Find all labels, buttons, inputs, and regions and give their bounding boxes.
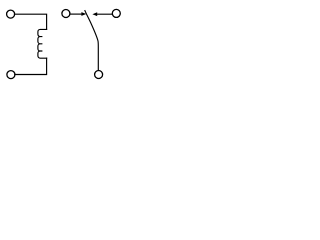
switch NO terminal circle (right) — [112, 9, 120, 17]
switch lever (movable arm, curved) — [85, 11, 98, 70]
wire bottom (coil to pin 2) — [15, 58, 47, 74]
NO contact arrowhead (points left) — [92, 12, 97, 16]
NC contact arrowhead (points right) — [81, 12, 86, 16]
wire top (coil pin 1 to coil) — [15, 14, 47, 29]
common terminal circle (bottom) — [95, 71, 103, 79]
inductor coil L (4 loops) — [38, 29, 47, 58]
coil terminal circle (top left pin) — [7, 10, 15, 18]
coil terminal circle (bottom left pin) — [7, 71, 15, 79]
wire from NO terminal — [97, 13, 113, 15]
relay schematic: coil K1 (left) and SPDT contact (right) — [0, 0, 131, 93]
switch NC terminal circle (left) — [62, 10, 70, 18]
wire from NC terminal — [70, 13, 81, 15]
